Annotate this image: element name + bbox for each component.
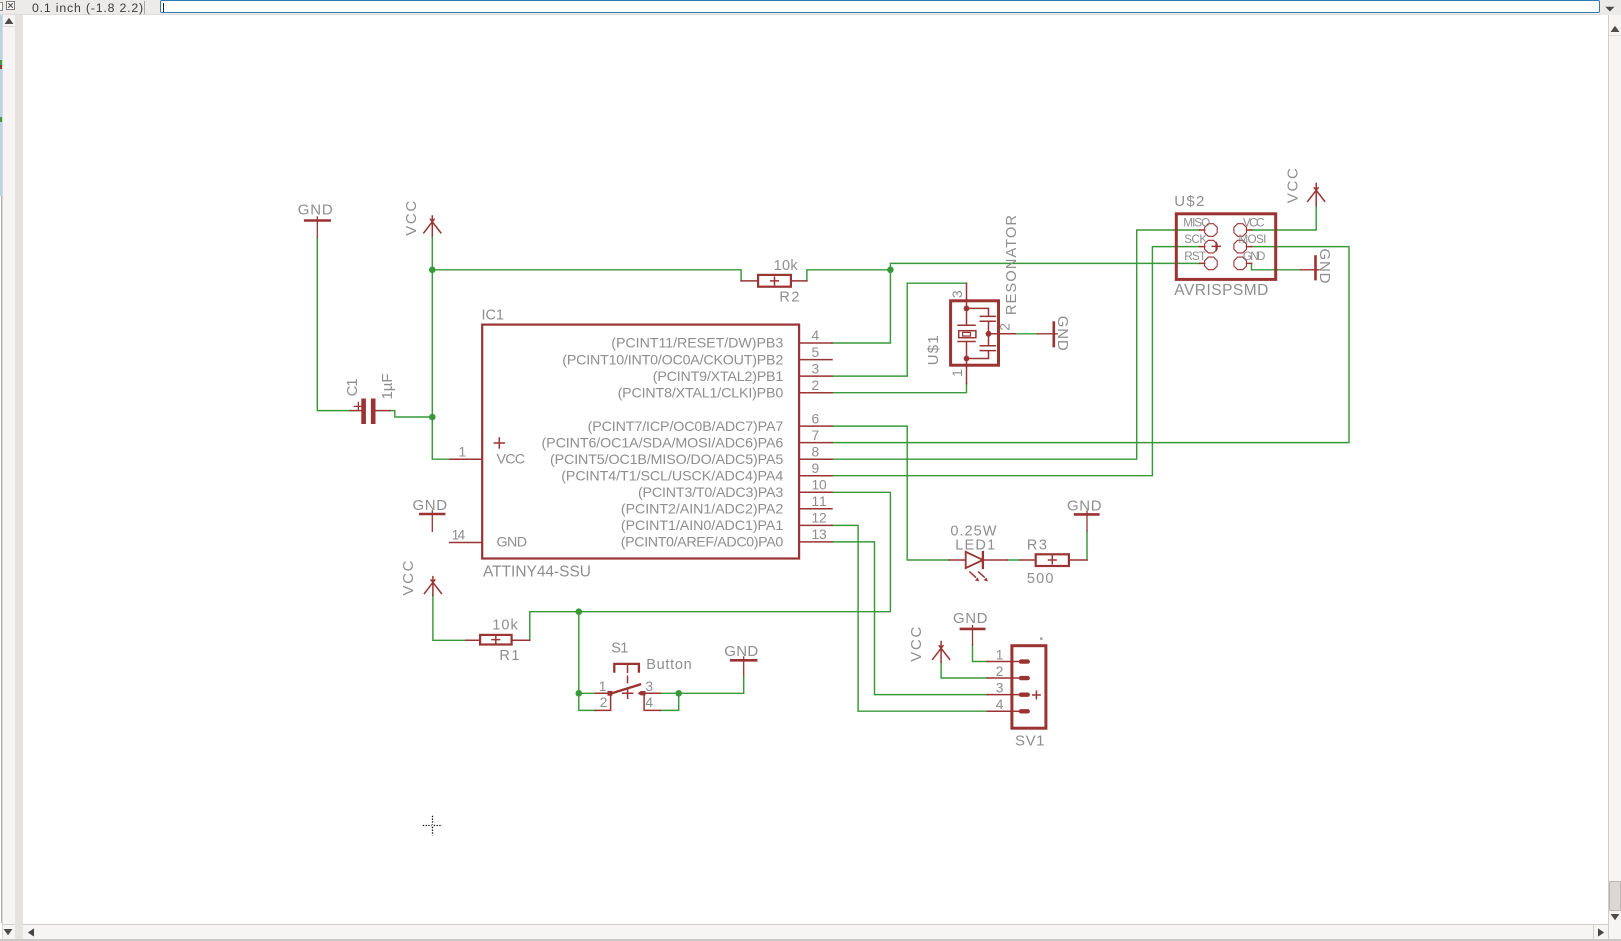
- wire net SCK (U$2 SCK to IC pin9): [832, 247, 1200, 476]
- ground GND1 (top left): [304, 219, 331, 222]
- ground GND3 (button): [730, 659, 758, 662]
- svg-text:GND: GND: [497, 535, 528, 551]
- S1 plunger dashed line: [627, 664, 629, 682]
- left toolbar sliver colored marks: [0, 15, 2, 196]
- svg-text:(PCINT0/AREF/ADC0)PA0: (PCINT0/AREF/ADC0)PA0: [621, 535, 784, 551]
- svg-text:2: 2: [600, 695, 608, 710]
- svg-text:VCC: VCC: [908, 627, 925, 662]
- svg-text:GND: GND: [1067, 497, 1102, 514]
- SV1 plus cross: [1033, 691, 1040, 698]
- resonator pin stubs (3 top, 1 bottom, 2 right): [967, 283, 1016, 383]
- vcc symbol VCC3 (SV1 pin2): [933, 642, 950, 663]
- svg-text:SV1: SV1: [1015, 732, 1045, 749]
- wire net VCC to R1: [433, 595, 466, 640]
- svg-text:10: 10: [812, 478, 828, 493]
- wire net XTAL2 (IC pin3 to resonator pin3): [832, 283, 967, 376]
- wire GND to SV1 pin1: [973, 645, 988, 662]
- svg-text:3: 3: [950, 290, 965, 298]
- vcc symbol VCC4 (U$2): [1308, 184, 1325, 206]
- capacitor C1 leads: [350, 410, 390, 412]
- wire resonator pin2 to GND: [1015, 333, 1037, 335]
- left scrollbar: [2, 15, 15, 941]
- U$2 pad pin stubs: [1200, 230, 1252, 263]
- wire net VCC (VCC symbol to R2, C1, IC pin1): [390, 236, 741, 459]
- S1 pin stubs: [595, 693, 660, 710]
- U$2 pad MISO: [1205, 224, 1218, 237]
- ground GND4 (SV1 pin1): [960, 628, 986, 631]
- input text cursor: [163, 3, 164, 13]
- svg-text:U$2: U$2: [1174, 193, 1204, 210]
- wire net PA0 (IC pin13 to SV1 pin3): [832, 542, 987, 695]
- svg-text:1: 1: [599, 679, 607, 694]
- svg-text:ATTINY44-SSU: ATTINY44-SSU: [483, 563, 591, 580]
- right scrollbar thumb: [1609, 881, 1621, 912]
- wire net GND1 (GND to C1 left): [317, 237, 350, 410]
- svg-text:10k: 10k: [492, 618, 518, 634]
- S1 actuator bracket: [614, 664, 639, 673]
- connector SV1: [987, 646, 1046, 729]
- resistor R2 plus cross: [771, 277, 779, 285]
- resistor R3 plus cross: [1049, 556, 1057, 564]
- svg-text:GND: GND: [1316, 249, 1333, 284]
- svg-text:14: 14: [452, 528, 466, 543]
- ground labels GND1-GND5: [298, 168, 1333, 662]
- IC1 origin cross: [494, 438, 504, 448]
- mouse crosshair cursor: [423, 816, 442, 835]
- vcc symbol VCC2 (R1): [424, 577, 441, 596]
- svg-text:SCK: SCK: [1184, 232, 1207, 246]
- SV1 pads: [1019, 659, 1030, 663]
- bottom window edge strip: [0, 939, 1621, 941]
- svg-text:U$1: U$1: [925, 335, 942, 365]
- svg-text:GND: GND: [1243, 249, 1266, 263]
- capacitor branch: [967, 308, 1001, 358]
- S1 pin numbers: [599, 679, 654, 710]
- svg-text:(PCINT2/AIN1/ADC2)PA2: (PCINT2/AIN1/ADC2)PA2: [621, 502, 783, 518]
- svg-text:GND: GND: [724, 643, 758, 660]
- U$2 pad SCK: [1205, 240, 1218, 253]
- resistor R1 leads: [466, 639, 530, 641]
- IC1 ATtiny44 body: [482, 325, 799, 559]
- switch S1: [595, 664, 660, 711]
- svg-text:VCC: VCC: [400, 560, 417, 595]
- SV1 value dot: [1040, 637, 1043, 640]
- wire S1 pins3/4 to GND: [660, 676, 743, 711]
- ground GND7 (U$2, rotated): [1314, 255, 1317, 280]
- svg-text:GND: GND: [1054, 316, 1071, 351]
- svg-text:MOSI: MOSI: [1238, 232, 1266, 246]
- svg-text:RESONATOR: RESONATOR: [1004, 215, 1020, 315]
- svg-text:R3: R3: [1027, 538, 1047, 554]
- top toolbar strip: [0, 0, 1621, 15]
- S1 origin cross: [623, 688, 633, 698]
- svg-text:7: 7: [812, 428, 820, 443]
- svg-text:5: 5: [812, 345, 820, 360]
- svg-text:1: 1: [459, 444, 467, 459]
- bottom horizontal scrollbar: [23, 924, 1608, 925]
- wire U$2 GND pad to GND: [1252, 263, 1301, 269]
- capacitor C1 plus: [354, 402, 362, 410]
- junction dot R1/PA3: [576, 608, 583, 615]
- svg-text:MISO: MISO: [1183, 216, 1210, 230]
- vcc symbol VCC1 (top): [424, 216, 441, 236]
- svg-text:11: 11: [812, 494, 827, 509]
- svg-text:VCC: VCC: [1243, 216, 1265, 230]
- toolbar separator: [144, 1, 145, 14]
- LED1 emission arrows: [970, 572, 984, 577]
- toolbar label "0.1 inch (-1.8 2.2)": [32, 1, 157, 15]
- wire net RESET (R2 right to junction, RST pad, IC pin4): [807, 263, 1200, 343]
- svg-text:2: 2: [998, 323, 1013, 331]
- svg-text:(PCINT1/AIN0/ADC1)PA1: (PCINT1/AIN0/ADC1)PA1: [621, 518, 783, 534]
- junction dot VCC/C1: [429, 414, 436, 421]
- svg-text:GND: GND: [298, 202, 333, 219]
- ground GND6 (resonator, rotated): [1053, 321, 1056, 347]
- IC1 left pin stubs (pin 1 VCC, pin 14 GND): [450, 459, 483, 542]
- svg-text:(PCINT4/T1/SCL/USCK/ADC4)PA4: (PCINT4/T1/SCL/USCK/ADC4)PA4: [561, 468, 783, 484]
- junction dot S1 pin3: [675, 690, 682, 697]
- svg-text:500: 500: [1027, 571, 1054, 587]
- junction dot S1 pin1: [576, 690, 583, 697]
- svg-text:3: 3: [812, 361, 820, 376]
- svg-text:R2: R2: [779, 289, 799, 305]
- resistor R2 body: [758, 275, 791, 287]
- svg-text:C1: C1: [344, 378, 361, 396]
- svg-text:GND: GND: [413, 497, 448, 514]
- wire net PA1 (IC pin12 to SV1 pin4): [832, 525, 987, 711]
- svg-text:3: 3: [996, 680, 1004, 695]
- wire net LED (IC pin6 to LED1 to R3 to GND): [832, 426, 1087, 560]
- svg-text:10k: 10k: [774, 258, 799, 274]
- resistor R3 leads: [1020, 559, 1087, 561]
- junction dot VCC/R2: [429, 267, 436, 274]
- wire net XTAL1 (IC pin2 to resonator pin1): [832, 384, 967, 393]
- junction dot RESET net: [887, 267, 894, 274]
- wire net PA3 (IC pin10 to R1/S1): [530, 492, 891, 710]
- svg-text:VCC: VCC: [403, 201, 420, 236]
- gray band between scrollbar and canvas: [15, 15, 23, 939]
- resistor R2 leads: [741, 280, 807, 282]
- svg-text:(PCINT3/T0/ADC3)PA3: (PCINT3/T0/ADC3)PA3: [638, 485, 783, 501]
- SV1 pin numbers: [996, 647, 1004, 712]
- svg-text:1µF: 1µF: [379, 374, 396, 400]
- svg-text:4: 4: [996, 697, 1004, 712]
- svg-text:2: 2: [812, 378, 820, 393]
- wire net VCC to U$2 VCC pad: [1252, 206, 1317, 231]
- svg-text:4: 4: [645, 695, 653, 710]
- capacitor C1 plates: [364, 399, 374, 425]
- crystal branch: [958, 299, 975, 366]
- U$2 origin cross: [1212, 242, 1220, 250]
- svg-text:1: 1: [996, 647, 1004, 662]
- resistor R1 body: [480, 635, 512, 645]
- wire VCC to SV1 pin2: [941, 662, 987, 678]
- svg-text:13: 13: [812, 527, 828, 542]
- svg-text:(PCINT8/XTAL1/CLKI)PB0: (PCINT8/XTAL1/CLKI)PB0: [618, 385, 784, 401]
- svg-text:AVRISPSMD: AVRISPSMD: [1174, 282, 1268, 299]
- svg-text:6: 6: [812, 411, 820, 426]
- svg-text:Button: Button: [646, 657, 692, 673]
- svg-text:IC1: IC1: [482, 308, 505, 324]
- partial icon at far left of top bar: [0, 2, 3, 12]
- svg-text:(PCINT11/RESET/DW)PB3: (PCINT11/RESET/DW)PB3: [611, 336, 783, 352]
- svg-text:R1: R1: [499, 648, 519, 664]
- IC1 right pin numbers: [812, 328, 828, 542]
- svg-text:(PCINT6/OC1A/SDA/MOSI/ADC6)PA6: (PCINT6/OC1A/SDA/MOSI/ADC6)PA6: [542, 435, 784, 451]
- supply symbols: [304, 184, 1325, 676]
- svg-text:LED1: LED1: [955, 538, 995, 554]
- resistor R3 body: [1036, 554, 1069, 566]
- svg-text:(PCINT7/ICP/OC0B/ADC7)PA7: (PCINT7/ICP/OC0B/ADC7)PA7: [588, 419, 784, 435]
- svg-text:VCC: VCC: [1285, 168, 1302, 203]
- U$2 pad GND: [1234, 257, 1247, 270]
- wire net MISO (U$2 MISO to IC pin8): [832, 230, 1200, 459]
- U$2 pad MOSI: [1234, 240, 1247, 253]
- svg-text:12: 12: [812, 511, 827, 526]
- command input field: [160, 0, 1600, 13]
- svg-text:(PCINT10/INT0/OC0A/CKOUT)PB2: (PCINT10/INT0/OC0A/CKOUT)PB2: [562, 352, 783, 368]
- svg-text:VCC: VCC: [497, 452, 526, 468]
- close (x-box) icon: [6, 1, 16, 11]
- LED1 leads: [950, 559, 1008, 561]
- SV1 pin stubs: [987, 662, 1019, 712]
- svg-text:3: 3: [645, 679, 653, 694]
- resonator internal junction dots: [964, 306, 970, 312]
- LED1 triangle: [966, 552, 983, 568]
- connector U$2 AVRISPSMD: [1176, 214, 1275, 280]
- ground GND5 (R3): [1074, 513, 1100, 516]
- IC1 left pin numbers: [452, 444, 467, 542]
- combo dropdown button: [1601, 0, 1621, 15]
- LED1 arrowheads: [975, 577, 979, 581]
- LED1 cathode bar: [982, 551, 984, 569]
- resonator U$1: [951, 283, 1016, 383]
- resonator pin numbers rotated: [950, 290, 1013, 377]
- IC1 pin name labels: [542, 336, 784, 551]
- svg-text:S1: S1: [611, 640, 628, 656]
- U$2 pad names: [1183, 216, 1266, 263]
- IC1 right pin stubs (pins 4,5,3,2,6,7,8,9,10,11,12,13): [799, 343, 832, 542]
- svg-text:RST: RST: [1184, 249, 1206, 263]
- svg-text:GND: GND: [953, 610, 988, 627]
- wire net MOSI (U$2 MOSI to IC pin7): [832, 247, 1349, 443]
- svg-text:2: 2: [996, 664, 1004, 679]
- resistor R1 plus cross: [492, 636, 500, 644]
- S1 right contact: [641, 691, 646, 695]
- svg-text:1: 1: [950, 369, 965, 377]
- svg-text:(PCINT9/XTAL2)PB1: (PCINT9/XTAL2)PB1: [653, 369, 784, 385]
- svg-text:(PCINT5/OC1B/MISO/DO/ADC5)PA5: (PCINT5/OC1B/MISO/DO/ADC5)PA5: [550, 452, 783, 468]
- S1 lever: [610, 685, 640, 694]
- U$2 pad VCC: [1234, 224, 1247, 237]
- svg-text:4: 4: [812, 328, 820, 343]
- ground GND2 (IC pin14): [419, 513, 445, 516]
- right scrollbar: [1608, 15, 1621, 941]
- svg-text:8: 8: [812, 444, 820, 459]
- svg-text:9: 9: [812, 461, 820, 476]
- S1 left contact square: [608, 691, 613, 696]
- U$2 pad RST: [1205, 257, 1218, 270]
